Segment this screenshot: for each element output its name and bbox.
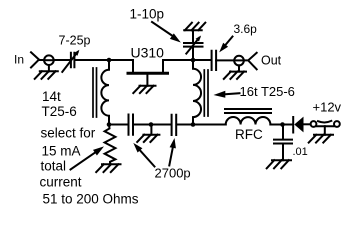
arrow 3.6p xyxy=(219,37,232,53)
svg-text:2700p: 2700p xyxy=(155,166,191,181)
svg-text:16t T25-6: 16t T25-6 xyxy=(240,84,295,99)
wire RFC to node F xyxy=(270,124,292,126)
node E junction xyxy=(191,122,196,127)
wire drain to node B xyxy=(163,59,211,61)
resistor R1 xyxy=(105,125,116,165)
wire C3 to Out xyxy=(216,59,234,61)
node D junction xyxy=(149,122,154,127)
wire In to C1 xyxy=(54,59,70,61)
arrow 2700p right xyxy=(169,138,176,166)
svg-text:51 to 200 Ohms: 51 to 200 Ohms xyxy=(43,191,139,206)
ground (gate) xyxy=(133,86,155,93)
node F junction xyxy=(280,122,285,127)
svg-text:14t: 14t xyxy=(42,89,61,104)
svg-text:7-25p: 7-25p xyxy=(59,34,91,48)
ground (node D) xyxy=(137,125,159,143)
capacitor C2 1-10p trimmer xyxy=(184,30,203,60)
svg-text:select for: select for xyxy=(41,125,96,140)
svg-text:current: current xyxy=(40,175,82,190)
arrow 16t xyxy=(214,91,240,98)
ground (resistor) xyxy=(96,164,120,172)
core RFC xyxy=(225,109,271,113)
svg-text:T25-6: T25-6 xyxy=(42,104,77,119)
core L2 xyxy=(204,70,208,116)
wire C1 to node A xyxy=(75,59,133,61)
capacitor C4 2700p xyxy=(129,115,134,135)
svg-text:Out: Out xyxy=(261,54,282,68)
ground (C6) xyxy=(267,160,291,168)
ground (input connector) xyxy=(35,65,58,79)
svg-text:.01: .01 xyxy=(293,146,308,158)
transistor Q1 U310 JFET xyxy=(128,60,168,86)
connector J2 Out xyxy=(234,53,257,70)
node A junction xyxy=(107,58,112,63)
connector J1 In xyxy=(31,52,54,67)
svg-text:U310: U310 xyxy=(131,45,165,61)
inductor L2 16t coil xyxy=(193,60,201,125)
node B junction xyxy=(191,58,196,63)
arrow 1-10p xyxy=(152,22,181,43)
wire C4 to node D xyxy=(134,124,171,126)
wire node C to C4 xyxy=(109,124,128,126)
capacitor C3 3.6p xyxy=(212,51,217,70)
ground (power connector) xyxy=(309,126,333,142)
inductor RFC xyxy=(226,117,271,124)
diode D1 xyxy=(293,117,310,133)
connector J3 power xyxy=(311,121,340,127)
wire C5 to node E xyxy=(177,124,193,126)
capacitor C6 .01 xyxy=(274,125,292,161)
svg-text:1-10p: 1-10p xyxy=(130,7,165,22)
wire node E to RFC xyxy=(193,124,226,126)
svg-text:In: In xyxy=(14,53,24,67)
svg-text:15 mA: 15 mA xyxy=(42,143,81,158)
node C junction (L1 bottom) xyxy=(107,122,112,127)
core L1 xyxy=(93,68,97,117)
arrow select xyxy=(71,146,105,169)
svg-text:+12v: +12v xyxy=(313,100,342,115)
inductor L1 14t coil xyxy=(101,60,109,125)
arrow 2700p left xyxy=(133,143,154,167)
ground (output connector) xyxy=(224,65,246,79)
ground (trimmer top) xyxy=(184,23,205,31)
capacitor C5 2700p xyxy=(172,115,177,135)
svg-text:total: total xyxy=(41,159,67,174)
svg-text:3.6p: 3.6p xyxy=(234,22,258,36)
capacitor C1 7-25p variable xyxy=(62,50,79,72)
svg-text:RFC: RFC xyxy=(235,127,263,142)
